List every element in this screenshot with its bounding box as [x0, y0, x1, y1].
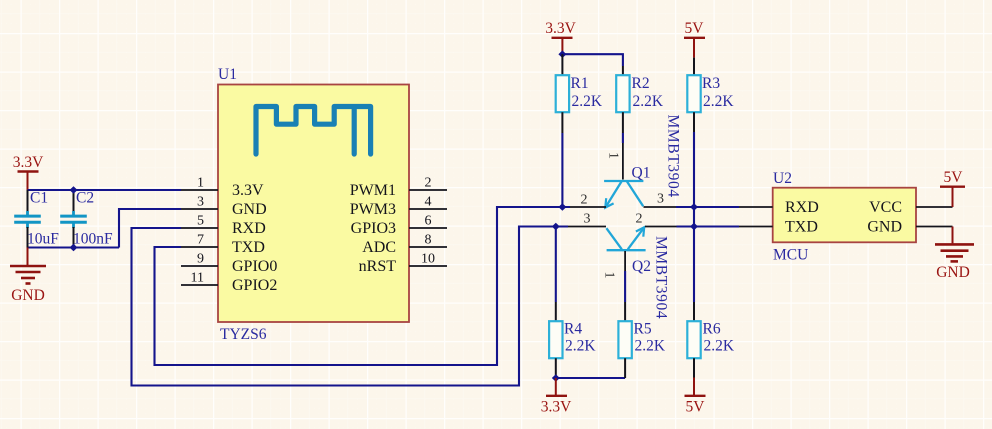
- U2 pin names: [785, 199, 902, 236]
- svg-text:8: 8: [425, 233, 432, 248]
- power port 5V over R3: [684, 20, 705, 58]
- pin numbers right: [421, 176, 435, 267]
- svg-text:TYZS6: TYZS6: [220, 326, 267, 343]
- ground GND left: [10, 248, 46, 305]
- svg-text:100nF: 100nF: [73, 231, 113, 248]
- junction Q2/R3 column: [690, 223, 698, 231]
- svg-text:5: 5: [197, 214, 204, 229]
- svg-text:R2: R2: [632, 75, 650, 92]
- power port 5V bottom (down): [685, 378, 706, 416]
- svg-text:3.3V: 3.3V: [545, 20, 576, 37]
- transistor Q1 symbol: [604, 181, 643, 208]
- svg-text:3: 3: [197, 195, 204, 210]
- svg-text:7: 7: [197, 233, 204, 248]
- wire 3.3V to R2: [562, 54, 623, 66]
- svg-text:2.2K: 2.2K: [633, 93, 664, 110]
- pin numbers left: [191, 176, 204, 286]
- svg-text:R5: R5: [634, 321, 652, 338]
- wire top rail 3.3V net: [28, 189, 182, 191]
- svg-text:3.3V: 3.3V: [541, 399, 572, 416]
- Q2 pin2 line: [645, 226, 677, 228]
- svg-text:U1: U1: [218, 66, 237, 83]
- junction Q1/R3 column: [690, 203, 698, 211]
- svg-text:2.2K: 2.2K: [635, 338, 666, 355]
- svg-text:11: 11: [191, 271, 204, 286]
- wire R3 down through junctions to R6: [693, 132, 695, 302]
- wire Q1 pin3 to U2 RXD: [676, 206, 739, 208]
- svg-text:VCC: VCC: [869, 199, 902, 216]
- pin 2 line: [409, 189, 447, 191]
- wire Q2 pin1 to R5: [624, 271, 626, 302]
- svg-text:TXD: TXD: [785, 219, 818, 236]
- wire R2 to Q1 pin1: [622, 133, 624, 143]
- svg-text:RXD: RXD: [785, 199, 819, 216]
- wire bottom rail GND net: [28, 246, 120, 248]
- svg-text:3.3V: 3.3V: [232, 182, 264, 199]
- U2 RXD pin line: [739, 206, 773, 208]
- svg-text:1: 1: [606, 152, 621, 159]
- svg-text:GND: GND: [867, 219, 902, 236]
- pin 5 line: [181, 227, 218, 229]
- pin 7 line: [181, 246, 218, 248]
- svg-text:10uF: 10uF: [27, 231, 59, 248]
- pin 3 line: [181, 208, 218, 210]
- svg-text:Q1: Q1: [632, 165, 651, 182]
- power port 3.3V top-left: [13, 154, 44, 190]
- svg-text:R6: R6: [703, 321, 721, 338]
- svg-text:1: 1: [197, 176, 204, 191]
- svg-text:2.2K: 2.2K: [572, 93, 603, 110]
- svg-text:PWM3: PWM3: [350, 201, 396, 218]
- svg-text:GND: GND: [232, 201, 267, 218]
- pin 8 line: [409, 246, 447, 248]
- resistor R3: [687, 58, 734, 132]
- resistor R2: [616, 66, 664, 133]
- power port 3.3V bottom (down): [541, 378, 572, 416]
- pin 9 line: [181, 265, 218, 267]
- svg-text:3: 3: [584, 212, 591, 227]
- resistor R6: [687, 302, 735, 378]
- svg-text:U2: U2: [773, 170, 792, 187]
- wire R4 top: [555, 227, 557, 303]
- resistor R1: [556, 54, 603, 133]
- pin 6 line: [409, 227, 447, 229]
- svg-text:6: 6: [425, 214, 432, 229]
- svg-text:5V: 5V: [686, 399, 706, 416]
- svg-text:2: 2: [636, 212, 643, 227]
- svg-text:3.3V: 3.3V: [13, 154, 44, 171]
- transistor Q2 symbol: [606, 227, 645, 250]
- Q2 pin1 line: [624, 251, 626, 271]
- svg-text:1: 1: [602, 272, 617, 279]
- chip U1 body: [218, 85, 409, 323]
- capacitor C1: [14, 190, 59, 248]
- Q1 pin2 line: [570, 206, 606, 208]
- resistor R5: [618, 302, 665, 378]
- svg-text:2.2K: 2.2K: [704, 338, 735, 355]
- junction C2 bottom: [70, 244, 78, 252]
- junction R4 bottom: [552, 374, 560, 382]
- svg-text:GPIO2: GPIO2: [232, 277, 277, 294]
- resistor R4: [549, 302, 596, 378]
- Q2 pin3 line: [568, 226, 606, 228]
- svg-text:GPIO3: GPIO3: [351, 220, 396, 237]
- ground GND right: [935, 227, 974, 282]
- pin names right: [350, 182, 396, 275]
- Q1 pin1 base line: [622, 143, 624, 180]
- power port 5V right: [940, 169, 965, 207]
- svg-text:ADC: ADC: [362, 239, 396, 256]
- svg-text:RXD: RXD: [232, 220, 266, 237]
- wire Q2 pin2 to U2 TXD: [677, 225, 740, 227]
- U2 VCC pin line: [916, 206, 953, 208]
- svg-text:R4: R4: [564, 321, 582, 338]
- capacitor C2: [60, 190, 113, 248]
- svg-text:TXD: TXD: [232, 239, 265, 256]
- svg-text:MMBT3904: MMBT3904: [653, 236, 670, 319]
- svg-text:2: 2: [581, 193, 588, 208]
- junction C2 top: [70, 186, 78, 194]
- U2 TXD pin line: [739, 226, 773, 228]
- junction R1 top: [558, 50, 566, 58]
- svg-text:MMBT3904: MMBT3904: [665, 115, 682, 198]
- pin 10 line: [409, 265, 447, 267]
- svg-text:MCU: MCU: [773, 247, 808, 264]
- svg-text:2.2K: 2.2K: [703, 93, 734, 110]
- svg-text:R1: R1: [571, 75, 589, 92]
- svg-text:C1: C1: [30, 190, 48, 207]
- svg-text:2.2K: 2.2K: [565, 338, 596, 355]
- wire RXD pin5 loop: [132, 227, 569, 386]
- svg-text:R3: R3: [702, 75, 720, 92]
- svg-text:2: 2: [425, 176, 432, 191]
- svg-text:3: 3: [657, 192, 664, 207]
- power port 3.3V over R1: [545, 20, 576, 54]
- svg-text:4: 4: [425, 195, 432, 210]
- junction R4/Q2: [552, 223, 560, 231]
- svg-text:GND: GND: [11, 287, 45, 304]
- svg-text:9: 9: [197, 252, 204, 267]
- wire R1 to Q1 base row: [561, 133, 563, 207]
- wire R4 to R5 bottom: [556, 377, 625, 379]
- svg-text:GPIO0: GPIO0: [232, 258, 277, 275]
- svg-text:5V: 5V: [944, 169, 964, 186]
- junction R1/Q1: [558, 203, 566, 211]
- Q1 pin3 line: [644, 206, 677, 208]
- svg-text:C2: C2: [76, 190, 94, 207]
- svg-text:10: 10: [421, 252, 435, 267]
- chip U2 body: [773, 188, 916, 243]
- svg-text:PWM1: PWM1: [350, 182, 396, 199]
- U2 GND pin line: [916, 226, 953, 228]
- pin 4 line: [409, 208, 447, 210]
- pin names left: [232, 182, 277, 294]
- svg-text:nRST: nRST: [359, 258, 397, 275]
- svg-text:GND: GND: [936, 264, 970, 281]
- svg-text:5V: 5V: [685, 20, 705, 37]
- svg-text:Q2: Q2: [632, 258, 651, 275]
- wire GND pin3: [119, 209, 181, 248]
- logo wave glyph: [256, 107, 371, 155]
- pin 11 line: [181, 284, 218, 286]
- wire TXD pin7 loop: [155, 207, 571, 365]
- pin 1 line: [181, 189, 218, 191]
